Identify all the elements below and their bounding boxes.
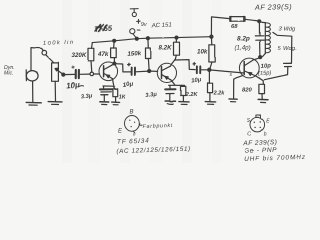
ground T2 cap [165, 101, 175, 104]
label 3.3u T2 [145, 92, 158, 99]
node T2 emitter bar [169, 84, 185, 86]
svg-text:Wdg.: Wdg. [283, 46, 297, 52]
node rail 9V [135, 37, 138, 40]
svg-text:8.2K: 8.2K [159, 45, 173, 52]
battery terminal plus [130, 9, 138, 17]
label 3 Wdg [279, 27, 297, 33]
label Dyn. Mic. [4, 65, 15, 77]
svg-text:2.2K: 2.2K [185, 92, 199, 98]
label e pin [133, 132, 136, 137]
capacitor 10p [264, 63, 291, 79]
label 10k [197, 48, 208, 55]
capacitor C3 10u [193, 63, 200, 74]
label 10u C3 [191, 77, 202, 84]
transistor T2 [157, 63, 176, 82]
label AC types [116, 146, 191, 156]
wire mic bottom [32, 82, 34, 102]
ground 1K [112, 102, 120, 105]
svg-text:820: 820 [242, 88, 253, 94]
label C pin [247, 132, 251, 138]
svg-text:150k: 150k [127, 50, 142, 58]
power rail [92, 37, 211, 43]
node base T1 [90, 72, 94, 76]
svg-text:100k lin: 100k lin [43, 40, 75, 47]
node T2 base [148, 69, 151, 72]
label 2.2k divider [213, 91, 226, 97]
label 2.2K [185, 92, 199, 98]
label B pin [130, 110, 134, 116]
wire to T2 base bar [151, 70, 158, 72]
label AF 239(S) top [254, 2, 292, 12]
resistor 47k [111, 41, 117, 64]
label +9V [137, 19, 148, 28]
svg-text:3 Wdg: 3 Wdg [279, 27, 297, 33]
svg-text:10μ: 10μ [66, 80, 81, 90]
node input terminal [42, 50, 47, 55]
svg-text:10p: 10p [261, 63, 272, 70]
resistor 820 [259, 84, 265, 99]
wire T2 emitter [171, 80, 175, 85]
wire T1 collector to C2 [115, 64, 131, 72]
node T1 emitter bar [103, 85, 115, 87]
node T1 collector [113, 62, 116, 65]
label 10p [261, 63, 272, 70]
microphone [26, 70, 38, 81]
capacitor C1 10u [72, 66, 79, 78]
wire T2 collector [170, 61, 175, 67]
label TF 65/34 [117, 138, 150, 146]
svg-text:3.3μ: 3.3μ [145, 92, 158, 99]
pinout TF65 case [124, 116, 139, 133]
ground pot [48, 102, 62, 105]
wire junction to C1 [63, 73, 74, 75]
label TF65 crossed [94, 24, 113, 34]
wire T3 emitter [256, 76, 263, 84]
pinout AF239 case [250, 115, 265, 132]
wire collector node [253, 57, 262, 60]
wire T2 collector to C3 [175, 60, 195, 70]
label s pin [230, 72, 233, 78]
wire C3 to divider node [201, 69, 208, 71]
ground 2.2k divider [205, 102, 215, 105]
ground shield [229, 99, 237, 102]
svg-text:10μ: 10μ [122, 81, 134, 89]
label 5 Wdg [278, 46, 297, 52]
ground 820 [258, 99, 268, 102]
label 10u C2 [122, 81, 134, 89]
wire divider to T3 base [211, 70, 244, 73]
label 47k [97, 51, 109, 58]
svg-text:(1,4p): (1,4p) [235, 44, 251, 51]
resistor 8.2k [174, 38, 180, 61]
svg-text:1K: 1K [119, 95, 127, 101]
svg-text:TF 65/34: TF 65/34 [117, 138, 150, 146]
label 10u [66, 80, 81, 90]
label Farbpunkt [139, 123, 174, 130]
resistor 10k [209, 37, 215, 70]
label b pin [264, 131, 267, 137]
label (1,4p) [235, 44, 251, 51]
resistor 2.2K emitter [181, 85, 186, 101]
label 320k [72, 52, 87, 59]
svg-text:10k: 10k [197, 48, 208, 55]
svg-text:AF 239(S): AF 239(S) [254, 2, 292, 12]
capacitor 3.3u T1 [100, 86, 113, 101]
svg-text:B: B [130, 110, 134, 116]
wire pot bottom [54, 81, 56, 100]
svg-text:320K: 320K [72, 52, 87, 59]
label 3.3u T1 [81, 93, 94, 100]
resistor 68 [230, 16, 245, 21]
transistor T3 [239, 58, 259, 78]
svg-text:3.3μ: 3.3μ [81, 93, 94, 100]
label 68 [231, 24, 238, 30]
node rail 150k [146, 37, 149, 40]
svg-text:AC 151: AC 151 [151, 22, 172, 29]
svg-text:(15p): (15p) [258, 70, 272, 77]
label E pin [118, 129, 123, 135]
node rail 8.2k [175, 36, 178, 39]
label AC 151 [151, 22, 172, 29]
battery terminal minus [130, 29, 140, 39]
resistor 150k [146, 38, 151, 70]
svg-text:Farbpunkt: Farbpunkt [142, 123, 173, 130]
label E pin AF [266, 118, 270, 124]
capacitor C2 10u [128, 63, 135, 75]
svg-text:e: e [133, 132, 136, 137]
resistor 320k [88, 43, 94, 73]
paper background [0, 0, 309, 163]
svg-text:Ge - PNP: Ge - PNP [244, 147, 277, 155]
label (15p) [258, 70, 272, 77]
label 8.2k [159, 45, 173, 52]
label 820 [242, 88, 253, 94]
svg-text:C: C [247, 132, 251, 138]
ground T1 cap [100, 102, 109, 105]
svg-text:2.2k: 2.2k [213, 91, 226, 97]
label 1K [119, 95, 127, 101]
wire C2 to T2 base [136, 70, 149, 73]
label AF 239(S) bottom [242, 139, 277, 147]
wire coil tap to 10p [273, 32, 292, 63]
node rail 10k corner [210, 35, 213, 38]
resistor 2.2k divider [208, 70, 213, 101]
capacitor 3.3u T2 [165, 85, 175, 100]
wire to T1 base [94, 73, 100, 75]
node wiper junction [62, 73, 65, 76]
ground mic [26, 102, 41, 105]
capacitor 8.2p [255, 22, 264, 57]
wire 68 to tank [245, 19, 265, 22]
svg-text:47k: 47k [97, 51, 109, 58]
wire rail to 68 [211, 17, 229, 37]
label 150k [127, 50, 142, 58]
transistor T1 [99, 62, 118, 81]
node T3 collector [259, 56, 262, 59]
wire terminal to pot top [46, 55, 54, 63]
resistor 1K [113, 86, 118, 101]
label 100k lin [43, 40, 75, 47]
label Ge - PNP [244, 147, 277, 155]
node divider [208, 68, 211, 71]
node rail 47k [113, 39, 116, 42]
potentiometer 100k lin [52, 63, 64, 81]
label S pin [247, 118, 251, 124]
wire shield pin to ground [234, 76, 243, 99]
svg-text:b: b [264, 131, 267, 137]
ground 2.2K [179, 102, 189, 105]
svg-text:Mic.: Mic. [4, 71, 14, 77]
node tank top [258, 20, 261, 23]
wire T1 emitter [112, 79, 113, 85]
wire mic to input terminal [31, 48, 43, 71]
inductor coil [263, 23, 271, 57]
wire T1 collector [112, 64, 115, 66]
svg-text:8.2p: 8.2p [237, 36, 250, 43]
svg-text:68: 68 [231, 24, 238, 30]
wire C1 to base node [80, 73, 90, 75]
label 8.2p [237, 36, 250, 43]
label UHF bis 700 MHz [244, 154, 306, 163]
